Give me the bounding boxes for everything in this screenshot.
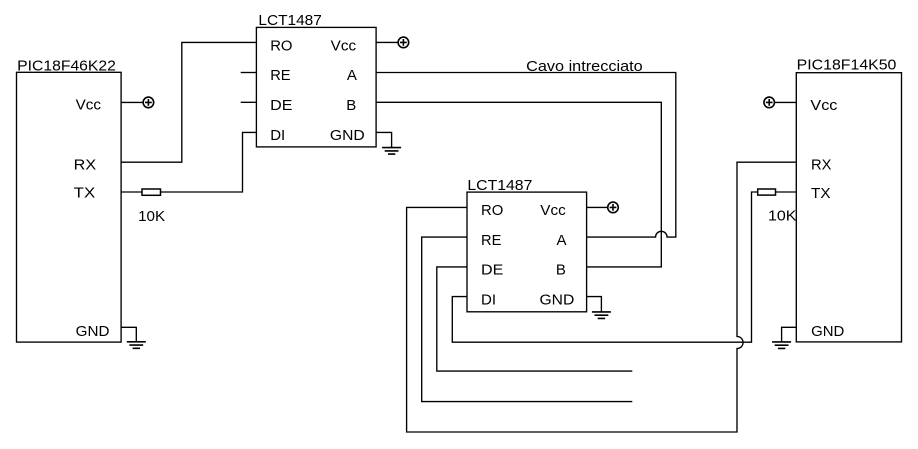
wire U4 GND pin to ground — [782, 327, 797, 342]
svg-text:GND: GND — [540, 292, 575, 309]
wire U3 RE (open end) — [422, 237, 633, 402]
wire resistor R2 to U4 TX — [776, 191, 797, 193]
power symbol +V at U4 Vcc — [764, 97, 775, 108]
svg-text:Vcc: Vcc — [331, 37, 357, 54]
svg-text:Vcc: Vcc — [540, 202, 566, 219]
svg-text:RE: RE — [481, 232, 501, 249]
power symbol +V at U1 Vcc — [143, 97, 154, 108]
svg-text:RO: RO — [481, 202, 503, 219]
svg-text:GND: GND — [811, 323, 844, 340]
svg-text:LCT1487: LCT1487 — [467, 177, 532, 194]
svg-text:DI: DI — [270, 127, 285, 144]
svg-text:B: B — [556, 262, 566, 279]
resistor R2 10K — [758, 189, 776, 195]
wire U2 Vcc pin to power symbol — [376, 41, 397, 43]
resistor R1 10K — [142, 189, 161, 195]
svg-text:B: B — [346, 97, 356, 114]
ground symbol at U3 GND — [592, 312, 611, 319]
svg-text:Vcc: Vcc — [810, 97, 838, 114]
wire net A: U2 A pin to U3 A pin with hop over net B — [376, 73, 676, 238]
IC U2 LCT1487 body (top transceiver) — [256, 27, 376, 146]
wire resistor R1 to U2 DI — [161, 132, 256, 192]
wire U3 GND pin to ground — [587, 297, 602, 312]
svg-text:RX: RX — [74, 156, 97, 173]
power symbol +V at U3 Vcc — [608, 202, 619, 213]
svg-text:RO: RO — [270, 37, 292, 54]
wire U1 GND pin to ground — [121, 327, 136, 342]
ground symbol at U2 GND — [382, 148, 401, 155]
wire power symbol to U4 Vcc pin — [775, 101, 796, 103]
IC U1 PIC18F46K22 body — [17, 72, 122, 342]
wire U1 TX to resistor R1 — [121, 191, 142, 193]
svg-text:TX: TX — [74, 184, 96, 201]
svg-text:10K: 10K — [138, 208, 165, 225]
wire U3 RO to U4 RX with hop over DI net — [407, 162, 797, 432]
svg-text:A: A — [557, 232, 567, 249]
wire U2 GND pin to ground — [376, 132, 392, 147]
svg-text:PIC18F46K22: PIC18F46K22 — [17, 58, 116, 75]
svg-text:Vcc: Vcc — [76, 97, 102, 114]
svg-text:PIC18F14K50: PIC18F14K50 — [797, 57, 897, 74]
svg-text:10K: 10K — [768, 207, 797, 224]
svg-text:LCT1487: LCT1487 — [258, 12, 321, 29]
svg-text:TX: TX — [811, 185, 831, 202]
wire stub U2 DE (n.c.) — [241, 101, 257, 103]
svg-text:Cavo intrecciato: Cavo intrecciato — [526, 58, 643, 75]
svg-text:DE: DE — [481, 262, 503, 279]
svg-text:A: A — [347, 67, 357, 84]
wire U1 Vcc pin to power symbol — [121, 101, 142, 103]
wire stub U2 RE (n.c.) — [241, 72, 257, 74]
svg-text:DE: DE — [270, 97, 292, 114]
svg-text:RE: RE — [270, 67, 290, 84]
ground symbol at U4 GND — [772, 342, 791, 349]
wire net B: U2 B pin to U3 B pin — [376, 102, 661, 267]
power symbol +V at U2 Vcc — [398, 37, 409, 48]
svg-text:GND: GND — [76, 323, 110, 340]
wire U3 DI to resistor R2 — [452, 192, 757, 342]
svg-text:DI: DI — [481, 292, 496, 309]
wire U3 DE (open end) — [437, 267, 633, 371]
svg-text:RX: RX — [811, 157, 832, 174]
wire U3 Vcc pin to power symbol — [587, 206, 608, 208]
IC U3 LCT1487 body (lower transceiver) — [467, 192, 587, 312]
IC U4 PIC18F14K50 body — [796, 73, 901, 342]
wire U1 RX to U2 RO — [121, 42, 256, 162]
svg-text:GND: GND — [330, 127, 365, 144]
ground symbol at U1 GND — [127, 342, 146, 349]
